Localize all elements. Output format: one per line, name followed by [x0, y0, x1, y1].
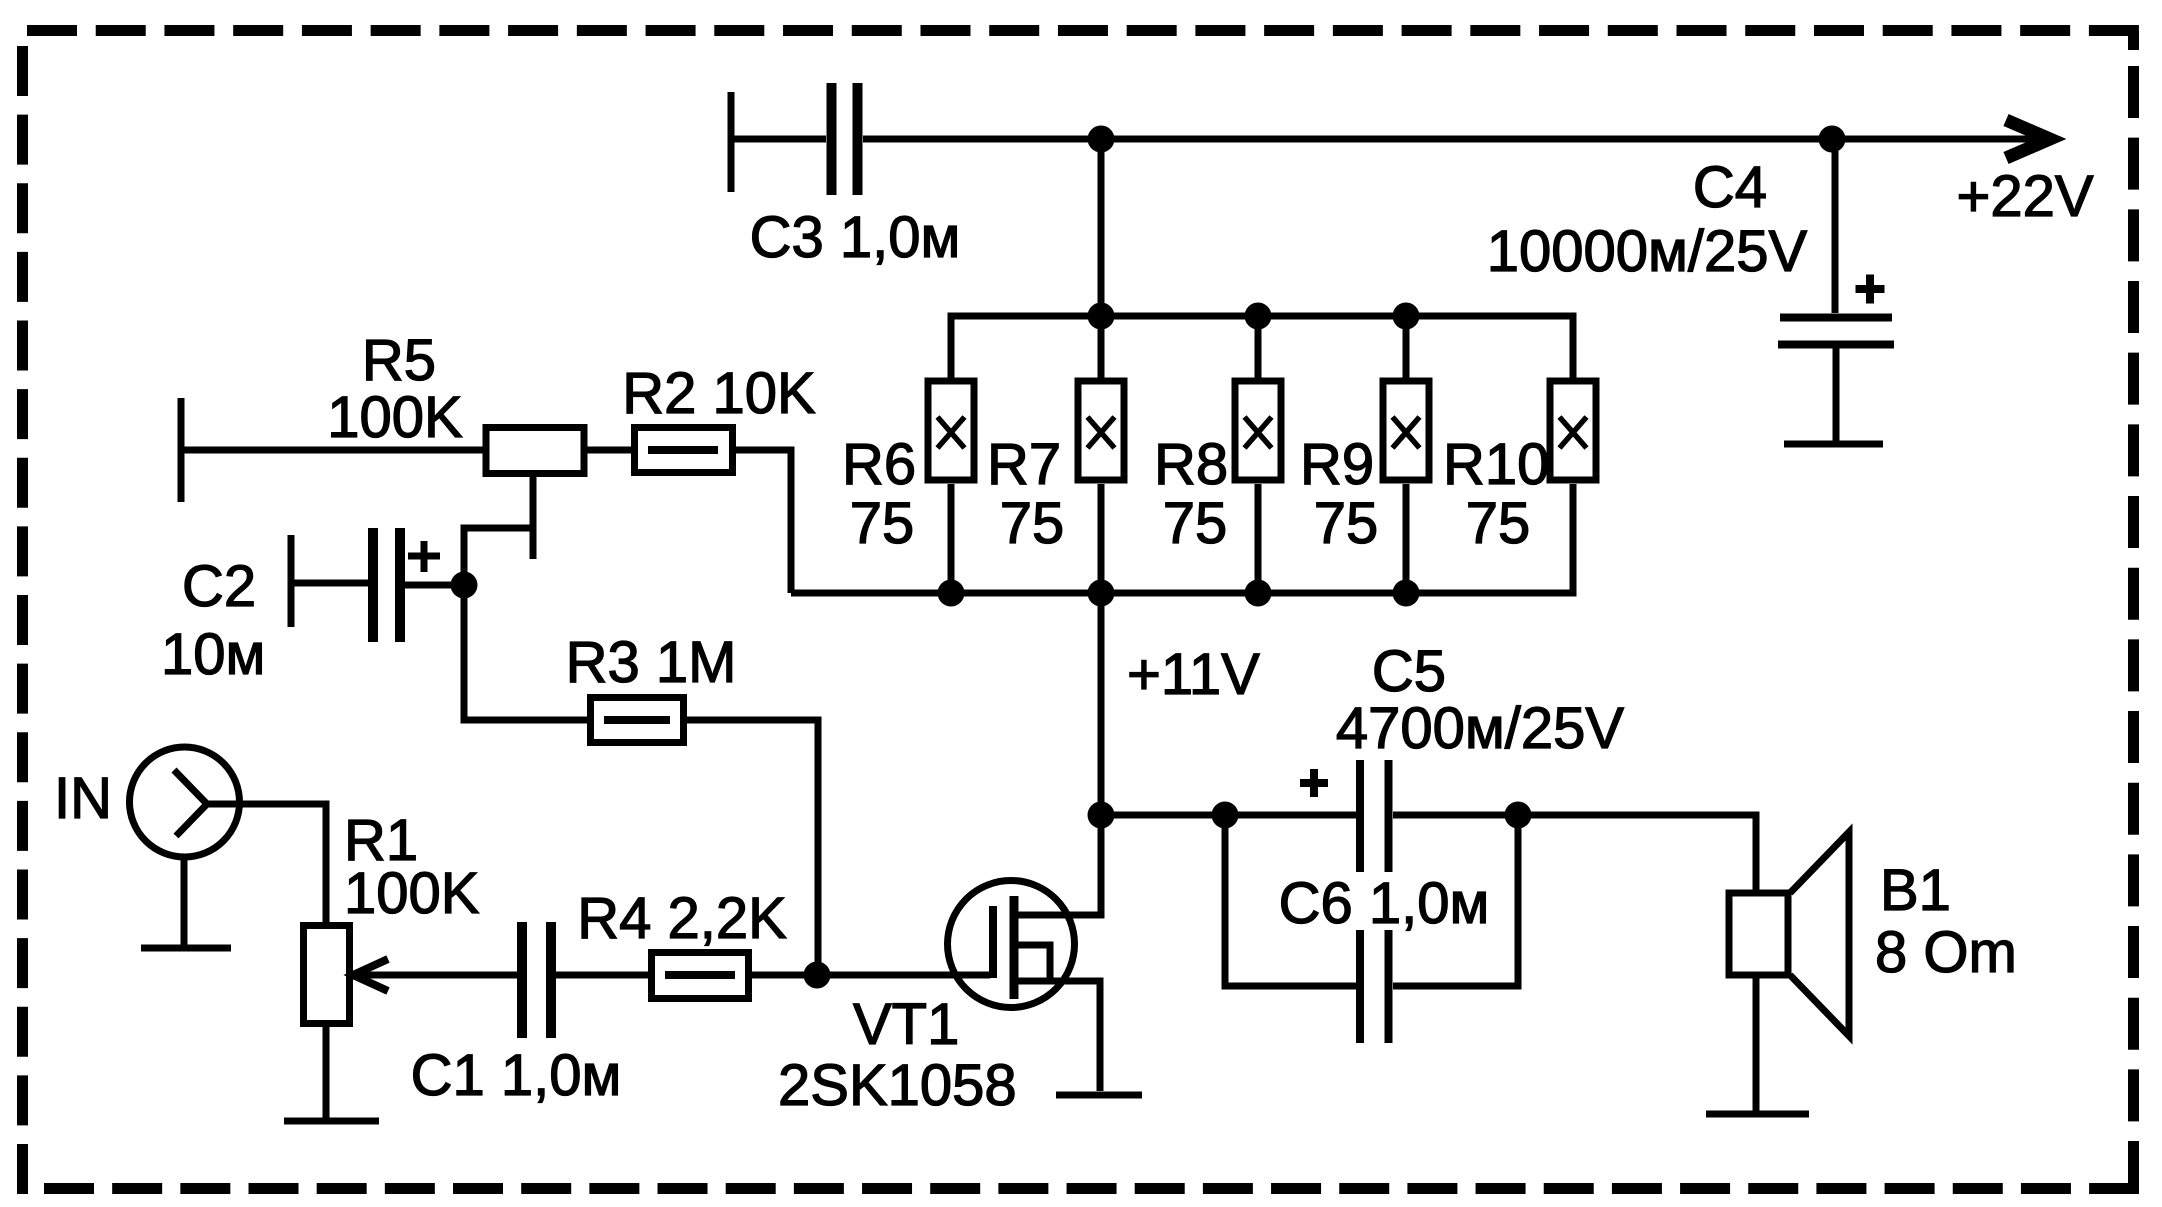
wire — [752, 972, 817, 979]
ground — [141, 945, 231, 952]
wire bottom rail — [791, 484, 1573, 593]
svg-text:C6 1,0м: C6 1,0м — [1279, 871, 1490, 936]
wire — [1098, 139, 1105, 316]
svg-text:IN: IN — [54, 766, 112, 831]
potentiometer R1 — [304, 926, 389, 1024]
resistor R7 — [1078, 381, 1124, 480]
wire — [733, 450, 791, 593]
svg-text:2SK1058: 2SK1058 — [778, 1053, 1017, 1118]
node — [1245, 303, 1272, 330]
speaker B1 — [1729, 832, 1849, 1114]
svg-text:C5: C5 — [1372, 639, 1446, 704]
svg-text:R6: R6 — [842, 432, 916, 497]
wire — [584, 447, 634, 454]
node +11V — [1088, 802, 1115, 829]
wire — [1098, 316, 1105, 381]
node — [1088, 580, 1115, 607]
ground — [284, 1118, 379, 1125]
wire — [464, 585, 587, 720]
svg-text:10000м/25V: 10000м/25V — [1487, 219, 1808, 284]
power +22V arrow — [2006, 120, 2050, 158]
node — [1245, 580, 1272, 607]
wire — [556, 972, 648, 979]
capacitor C1 — [522, 922, 551, 1038]
svg-text:R5: R5 — [362, 328, 436, 393]
wire — [405, 582, 464, 589]
wire — [687, 720, 818, 975]
wire — [1403, 484, 1410, 593]
connector IN — [130, 747, 240, 857]
resistor R10 — [1550, 381, 1596, 480]
svg-text:R7: R7 — [987, 432, 1061, 497]
svg-text:C3 1,0м: C3 1,0м — [750, 205, 961, 270]
node — [1505, 802, 1532, 829]
resistor R6 — [928, 381, 974, 480]
svg-text:75: 75 — [850, 491, 915, 556]
ground — [1056, 1092, 1142, 1099]
svg-text:100K: 100K — [344, 861, 480, 926]
wire — [207, 804, 326, 922]
transistor VT1 — [948, 815, 1102, 1091]
wire — [1098, 484, 1105, 593]
wire — [323, 1027, 330, 1118]
wire — [1393, 815, 1756, 893]
svg-text:75: 75 — [1163, 491, 1228, 556]
wire — [1403, 316, 1410, 381]
wire — [1101, 812, 1356, 819]
node — [938, 580, 965, 607]
svg-text:R9: R9 — [1300, 432, 1374, 497]
svg-text:R4 2,2K: R4 2,2K — [577, 886, 787, 951]
svg-text:R2 10K: R2 10K — [622, 361, 816, 426]
capacitor C2 — [373, 528, 440, 642]
resistor R4 — [652, 953, 749, 999]
wire — [1255, 484, 1262, 593]
wire top rail — [951, 316, 1573, 381]
wire — [181, 398, 486, 502]
svg-text:R10: R10 — [1443, 432, 1549, 497]
capacitor C6 — [1225, 815, 1518, 986]
node — [1088, 303, 1115, 330]
svg-text:+22V: +22V — [1956, 164, 2093, 229]
svg-text:VT1: VT1 — [853, 992, 959, 1057]
svg-text:B1: B1 — [1880, 858, 1951, 923]
svg-text:R3 1M: R3 1M — [566, 630, 737, 695]
svg-text:R8: R8 — [1154, 432, 1228, 497]
svg-text:75: 75 — [1314, 491, 1379, 556]
resistor R8 — [1235, 381, 1281, 480]
svg-text:8 Om: 8 Om — [1875, 920, 2017, 985]
svg-text:100K: 100K — [327, 385, 463, 450]
node gate junction — [804, 962, 831, 989]
wire — [181, 858, 188, 948]
wire — [1098, 593, 1105, 815]
capacitor C5 — [1300, 760, 1389, 1043]
capacitor C4 — [1778, 139, 1894, 444]
wire — [948, 484, 955, 593]
ground — [1784, 441, 1883, 448]
resistor R9 — [1383, 381, 1429, 480]
wire — [1255, 316, 1262, 381]
ground — [1706, 1111, 1809, 1118]
resistor R2 — [635, 428, 733, 473]
wire — [731, 92, 826, 192]
wire — [817, 972, 990, 979]
svg-text:+11V: +11V — [1127, 642, 1260, 707]
svg-text:C4: C4 — [1693, 155, 1767, 220]
svg-text:C1 1,0м: C1 1,0м — [411, 1043, 622, 1108]
node — [1212, 802, 1239, 829]
svg-text:75: 75 — [1466, 491, 1531, 556]
node C2 junction — [451, 572, 478, 599]
svg-text:10м: 10м — [161, 622, 265, 687]
wire — [291, 535, 368, 627]
potentiometer R5 — [464, 428, 584, 586]
node — [1393, 580, 1420, 607]
svg-text:C2: C2 — [182, 554, 256, 619]
wire — [863, 136, 2045, 143]
node — [1819, 126, 1846, 153]
node — [1088, 126, 1115, 153]
node — [1393, 303, 1420, 330]
resistor R3 — [591, 698, 684, 743]
wire — [355, 972, 517, 979]
capacitor C3 — [832, 83, 858, 195]
svg-text:75: 75 — [1000, 491, 1065, 556]
svg-text:4700м/25V: 4700м/25V — [1336, 696, 1625, 761]
